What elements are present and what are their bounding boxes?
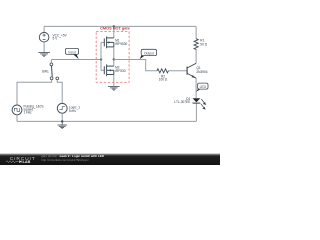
node gate bus junction bbox=[100, 58, 102, 60]
wire logic source to bottom rail bbox=[61, 113, 63, 121]
voltage source V1 VCC_+5V bbox=[39, 32, 67, 42]
voltage source V3 Logic_1 bbox=[57, 103, 80, 113]
wire bottom rail bbox=[17, 120, 196, 122]
svg-text:5 ms: 5 ms bbox=[69, 109, 76, 113]
wire output node to M2 drain bbox=[113, 60, 115, 67]
node output junction bbox=[113, 58, 115, 60]
svg-text:IRF9530: IRF9530 bbox=[115, 42, 127, 46]
switch SW1 bbox=[42, 60, 59, 80]
svg-text:LAB: LAB bbox=[23, 160, 31, 164]
svg-text:LED: LED bbox=[200, 85, 207, 89]
flag Output bbox=[140, 49, 157, 59]
wire LED cathode to bottom rail bbox=[195, 104, 197, 122]
svg-text:1 kHz: 1 kHz bbox=[24, 111, 33, 115]
wire SW1 left throw to pulse source bbox=[17, 80, 52, 105]
svg-text:SW1: SW1 bbox=[42, 69, 49, 73]
wire R2 to Q1 base bbox=[169, 70, 187, 72]
voltage source V2 Pulsing_1&0's bbox=[12, 104, 44, 114]
flag LED bbox=[196, 83, 208, 92]
CircuitLab logo bbox=[6, 156, 36, 164]
wire top rail bbox=[44, 25, 196, 27]
wire input horizontal bbox=[51, 59, 101, 61]
svg-text:IRF530: IRF530 bbox=[115, 69, 126, 73]
wire rail down to M1 drain bbox=[113, 26, 115, 38]
wire M1 drain to output node bbox=[113, 47, 115, 60]
svg-text:Input: Input bbox=[68, 50, 75, 54]
wire Q1 emitter down to LED anode bbox=[195, 78, 197, 98]
svg-text:Output: Output bbox=[144, 51, 154, 55]
wire pulse source to bottom rail bbox=[16, 115, 18, 122]
svg-text:http://circuitlab.com/c/q137l9: http://circuitlab.com/c/q137l9h2xvpc bbox=[41, 158, 89, 162]
resistor R2 100 ohm bbox=[157, 69, 169, 73]
wire M2 source to ground bbox=[113, 75, 115, 87]
svg-text:2N3904: 2N3904 bbox=[196, 70, 207, 74]
node bottom rail junction bbox=[61, 120, 63, 122]
svg-text:LTL-307EE: LTL-307EE bbox=[174, 100, 190, 104]
transistor M2 IRF530 bbox=[104, 64, 114, 76]
wire output node to R2 bbox=[114, 60, 157, 71]
node junction on top rail bbox=[113, 25, 115, 27]
resistor R1 50 ohm bbox=[194, 39, 198, 50]
wire R1 to Q1 collector bbox=[195, 50, 197, 64]
ground below VCC bbox=[38, 53, 50, 57]
LED emission arrows bbox=[201, 99, 206, 109]
svg-text:CMOS NOT gate: CMOS NOT gate bbox=[100, 26, 130, 30]
svg-text:50 Ω: 50 Ω bbox=[200, 43, 207, 47]
svg-text:100 Ω: 100 Ω bbox=[159, 78, 168, 82]
diode D1 LED bbox=[174, 97, 200, 104]
wire M1 gate lead bbox=[101, 41, 104, 43]
wire rail to R1 bbox=[195, 26, 197, 38]
footer bar bbox=[0, 153, 220, 165]
wire gate bus bbox=[100, 42, 102, 70]
transistor Q1 2N3904 bbox=[187, 63, 196, 78]
ground below bottom rail bbox=[58, 121, 67, 128]
wire SW1 right throw to logic source bbox=[57, 80, 62, 104]
CMOS NOT gate box bbox=[96, 32, 129, 83]
transistor M1 IRF9530 bbox=[104, 37, 114, 49]
wire M2 gate lead bbox=[101, 69, 104, 71]
wire VCC to rail bbox=[43, 26, 45, 32]
flag Input bbox=[65, 48, 78, 59]
wire VCC to ground bbox=[43, 42, 45, 52]
ground below M2 bbox=[108, 86, 120, 90]
